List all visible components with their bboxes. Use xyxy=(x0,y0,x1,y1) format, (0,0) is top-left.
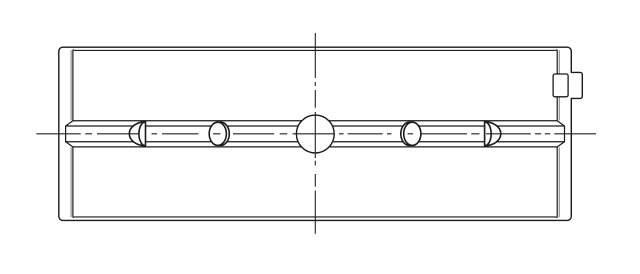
chamfer bottom-left xyxy=(73,216,75,219)
bearing shell outer outline with locating tab step xyxy=(59,47,583,220)
oil hole A outer profile xyxy=(129,122,145,146)
right parting face chamfer line upper xyxy=(558,50,560,120)
oil groove lower inner line xyxy=(66,141,565,143)
oil hole A inner edge arc xyxy=(139,122,146,146)
central oil hole C xyxy=(296,115,334,153)
left parting face chamfer line upper xyxy=(70,50,72,120)
oil hole E inner edge arc xyxy=(485,122,492,146)
left parting face line lower xyxy=(72,147,74,218)
groove runout flare left xyxy=(66,121,73,147)
oil groove lower outer line xyxy=(73,146,557,148)
oil hole D xyxy=(404,122,421,145)
left parting face chamfer line lower xyxy=(70,147,72,217)
oil groove upper inner line xyxy=(66,125,565,127)
groove runout flare right xyxy=(557,121,564,147)
inner bottom edge line xyxy=(75,216,556,218)
chamfer top-left xyxy=(73,49,75,52)
chamfer top-right xyxy=(556,49,558,52)
oil hole D far edge arc xyxy=(401,122,418,145)
oil groove upper outer line xyxy=(73,120,557,122)
inner top edge line xyxy=(75,49,556,51)
right parting face line lower xyxy=(556,147,558,218)
chamfer bottom-right xyxy=(556,216,558,219)
oil hole B far edge arc xyxy=(212,122,229,145)
right parting face chamfer line lower xyxy=(558,147,560,217)
vertical centerline xyxy=(314,33,316,234)
horizontal centerline xyxy=(36,133,596,135)
left parting face line upper xyxy=(72,50,74,121)
oil hole E outer profile xyxy=(485,122,501,146)
right parting face line upper xyxy=(556,50,558,121)
locating lug notch xyxy=(553,74,568,97)
oil hole B xyxy=(209,122,226,145)
